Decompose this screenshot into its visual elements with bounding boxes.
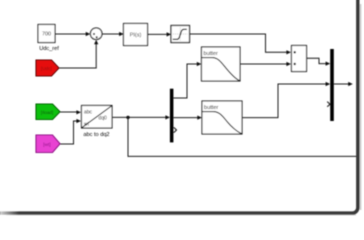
svg-text:wt: wt	[84, 122, 90, 128]
svg-text:dq0: dq0	[99, 115, 108, 121]
svg-text:butter: butter	[204, 105, 218, 111]
svg-text:PI(s): PI(s)	[130, 33, 142, 39]
wire PI to saturation	[148, 32, 172, 36]
wire sum to PI block	[102, 32, 124, 36]
wire constant 700 to sum	[55, 32, 90, 36]
wire sum block to mux input 1	[307, 58, 331, 65]
From tag [Iload] (green goto tag)	[36, 104, 60, 120]
abc to dq0 transform block, label abc to dq2	[82, 106, 113, 138]
wire mux output to cropped block	[334, 82, 353, 86]
butterworth filter 1 (butter)	[202, 47, 241, 81]
constant block Udc_ref value 700	[38, 25, 59, 53]
svg-text:[Iload]: [Iload]	[41, 110, 54, 115]
wire demux out1 to butter1	[173, 62, 201, 98]
PI controller block PI(s)	[124, 24, 148, 46]
svg-text:abc: abc	[84, 109, 93, 115]
demux D1 (left vertical bar)	[170, 89, 177, 143]
svg-text:700: 700	[42, 32, 51, 38]
svg-text:butter: butter	[204, 51, 218, 57]
wire butter1 to dq sum block	[240, 62, 291, 66]
svg-text:Udc_ref: Udc_ref	[39, 46, 59, 52]
sum block (2 inputs, rectangular)	[292, 46, 307, 72]
butterworth filter 2 (butter)	[202, 101, 242, 134]
feedback wire junction down and right to cropped block	[128, 117, 358, 156]
svg-text:[Udc]: [Udc]	[41, 66, 52, 71]
From tag [wt] (magenta goto tag)	[36, 135, 60, 153]
mux M1 (right vertical bar)	[327, 49, 334, 121]
wire [wt] to abc wt input	[60, 119, 81, 144]
sum junction U_sum (round sum + -)	[90, 28, 102, 40]
wire abc to dq0 output to demux, junction node	[112, 115, 170, 119]
wire demux out2 to butter2	[173, 116, 202, 120]
wire [Udc] to sum minus input	[59, 40, 98, 68]
svg-text:abc to dq2: abc to dq2	[83, 132, 109, 138]
wire butter2 to mux input 2	[242, 82, 330, 118]
svg-text:[wt]: [wt]	[43, 142, 50, 148]
wire saturation to dq sum block	[190, 34, 292, 54]
saturation block	[171, 26, 190, 43]
From tag [Udc] (red goto tag)	[36, 60, 59, 76]
wire [Iload] to abc input	[60, 110, 81, 114]
